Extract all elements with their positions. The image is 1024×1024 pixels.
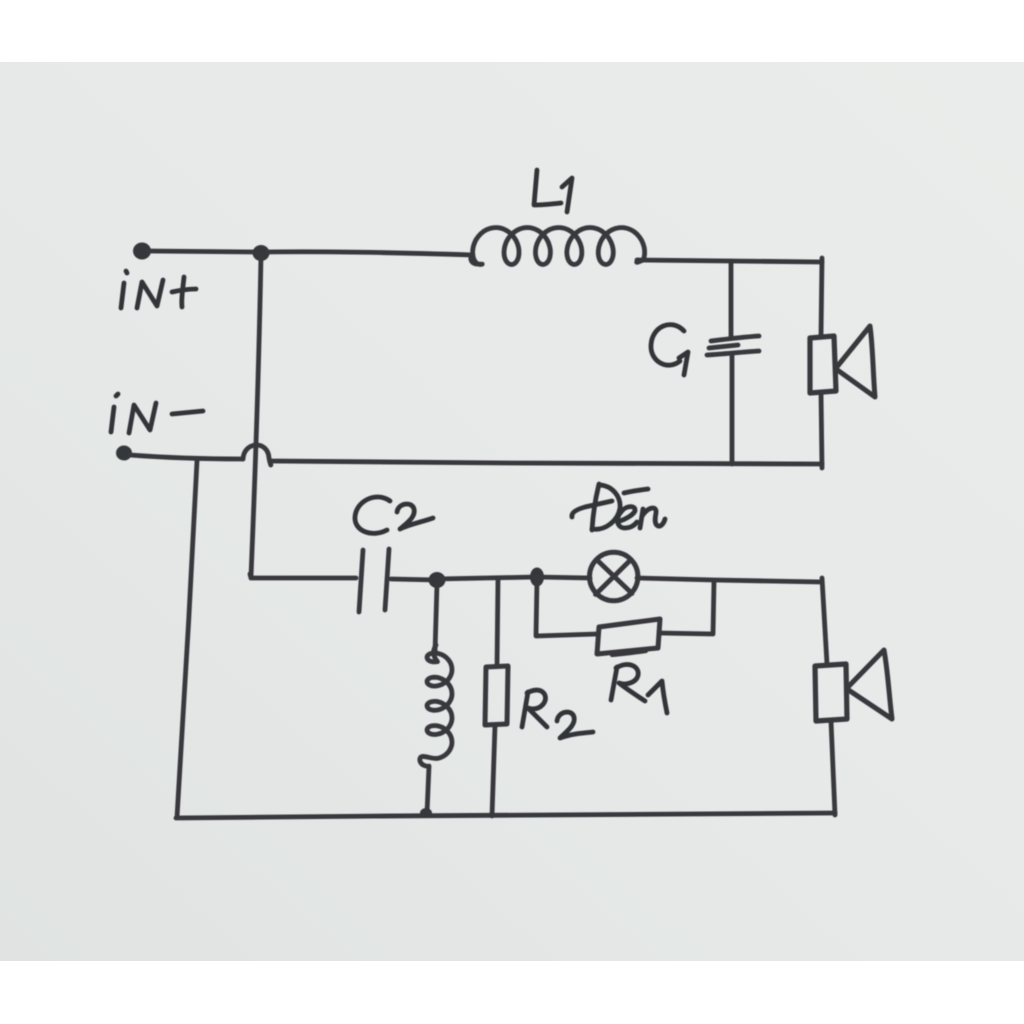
bottom white strip [0, 961, 1024, 1024]
lamp Den (circle with X) [590, 552, 638, 600]
node junction B [429, 572, 446, 588]
node iN+ terminal dot [133, 243, 151, 260]
node junction A (iN+ rail to vertical) [253, 245, 270, 261]
wire R1 branch right leg [659, 581, 714, 634]
resistor R2 [485, 666, 508, 725]
label R1 [611, 667, 617, 700]
wire right vertical upper (to speaker 1) [821, 258, 822, 336]
node junction C [530, 568, 544, 587]
wire lamp to lower-right corner [637, 578, 822, 582]
label Den (lamp) [592, 484, 599, 530]
label R2 [522, 692, 528, 727]
wire R2 branch upper [497, 579, 498, 666]
wire junction B to junction C [437, 577, 536, 579]
wire iN+ vertical down to lower circuit [251, 256, 261, 576]
label iN- [116, 394, 118, 396]
wire left outer vertical [177, 461, 197, 817]
wire C2 to junction B [391, 579, 437, 580]
wire R2 branch lower [492, 725, 495, 816]
label iN+ [126, 271, 127, 273]
wire iN- rail right segment [271, 461, 822, 464]
node iN- terminal dot [116, 446, 132, 461]
wire lower-right vertical lower [831, 721, 835, 815]
label L1 [534, 170, 561, 205]
capacitor C2 [359, 550, 363, 612]
labels, hand-written strokes [111, 170, 688, 738]
label C1 [651, 325, 684, 366]
speaker SP2 [815, 664, 847, 721]
wire L2 branch upper [435, 584, 437, 652]
wire right vertical lower (speaker 1 to bottom rail) [821, 392, 822, 468]
wire C1 branch upper [729, 261, 734, 337]
wire L2 branch lower [427, 766, 429, 813]
inductor L2 [420, 645, 452, 766]
wire R1 branch left leg [536, 580, 597, 636]
wire lower top rail to C2 [250, 574, 356, 578]
label C2 [355, 497, 390, 533]
capacitor C1 [711, 336, 759, 341]
speaker SP1 [810, 336, 836, 393]
inductor L1 [471, 228, 645, 265]
wire C1 branch lower [730, 356, 735, 464]
wire junction C to lamp [536, 577, 590, 578]
wire hop over vertical [243, 445, 271, 465]
wire L1 to top-right corner [637, 260, 822, 262]
wire bottom rail [176, 813, 835, 818]
wire iN- rail left segment [130, 455, 243, 459]
wire junction to L1 [267, 252, 472, 255]
resistor R1 [597, 619, 660, 654]
wire iN+ to junction [148, 251, 258, 252]
wire lower-right vertical upper [822, 578, 827, 664]
